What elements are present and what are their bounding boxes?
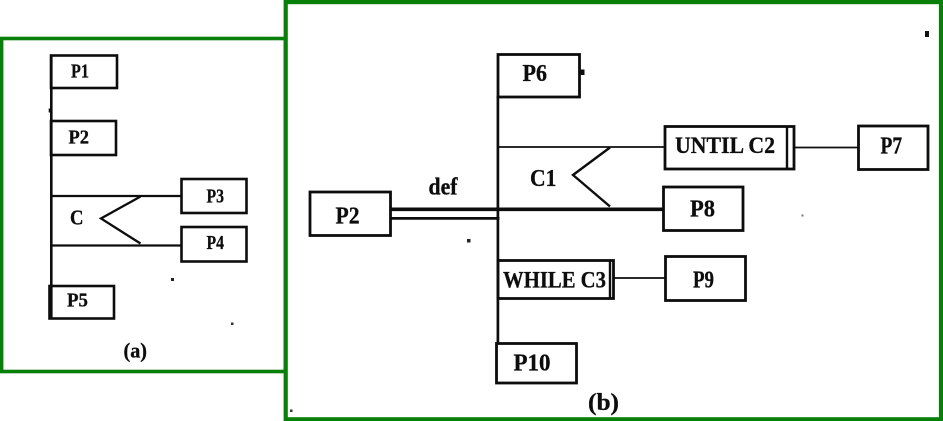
svg-text:P3: P3	[207, 186, 225, 208]
wire C to P4	[51, 244, 182, 246]
svg-text:C: C	[70, 206, 84, 230]
box P3	[182, 179, 247, 213]
wire C1 to UNTIL C2	[498, 146, 665, 148]
svg-text:P8: P8	[690, 197, 715, 223]
tick on trunk (a) below P1	[49, 109, 52, 113]
box WHILE C3	[498, 261, 614, 299]
svg-text:(a): (a)	[124, 339, 148, 363]
wire trunk (a)	[50, 56, 53, 319]
tick on P6 right edge	[580, 70, 585, 76]
noise dot 2	[467, 239, 471, 243]
svg-text:P2: P2	[336, 204, 360, 230]
svg-text:P4: P4	[207, 232, 225, 254]
box UNTIL C2	[665, 127, 794, 170]
box P9	[666, 257, 746, 301]
chevron selection C	[101, 197, 141, 244]
green frame panel (b)	[286, 2, 941, 419]
svg-text:(b): (b)	[588, 390, 619, 416]
box P7	[859, 126, 929, 170]
wire def lower	[391, 217, 500, 220]
wire trunk (b)	[497, 96, 500, 345]
box P10	[497, 344, 577, 384]
svg-text:P6: P6	[523, 61, 548, 87]
svg-text:P10: P10	[514, 351, 551, 377]
noise dot 1	[171, 278, 174, 281]
noise dot 3	[925, 31, 929, 37]
box P2 (b)	[310, 192, 391, 236]
svg-text:WHILE C3: WHILE C3	[503, 268, 606, 293]
svg-text:P9: P9	[693, 268, 714, 294]
box P5	[50, 286, 115, 319]
wire def upper (P2 to P8, thick)	[391, 208, 665, 212]
box P1	[51, 56, 117, 89]
noise dot 6	[802, 215, 804, 217]
chevron selection C1	[573, 148, 610, 207]
svg-text:P2: P2	[69, 127, 90, 149]
noise dot 5	[290, 410, 293, 413]
green frame panel (a)	[2, 39, 286, 372]
box P6	[498, 55, 580, 98]
box P4	[182, 227, 247, 262]
noise dot 4	[231, 323, 234, 326]
box P2 (a)	[51, 121, 116, 155]
svg-text:UNTIL C2: UNTIL C2	[675, 133, 775, 158]
wire WHILE C3 to P9	[614, 277, 667, 279]
svg-text:C1: C1	[530, 166, 557, 192]
svg-text:P5: P5	[67, 290, 88, 312]
svg-text:P1: P1	[71, 61, 89, 83]
svg-text:P7: P7	[881, 134, 903, 160]
box P8	[664, 187, 744, 231]
svg-text:def: def	[429, 175, 459, 201]
wire UNTIL C2 to P7	[794, 147, 859, 149]
wire C to P3	[51, 195, 182, 197]
